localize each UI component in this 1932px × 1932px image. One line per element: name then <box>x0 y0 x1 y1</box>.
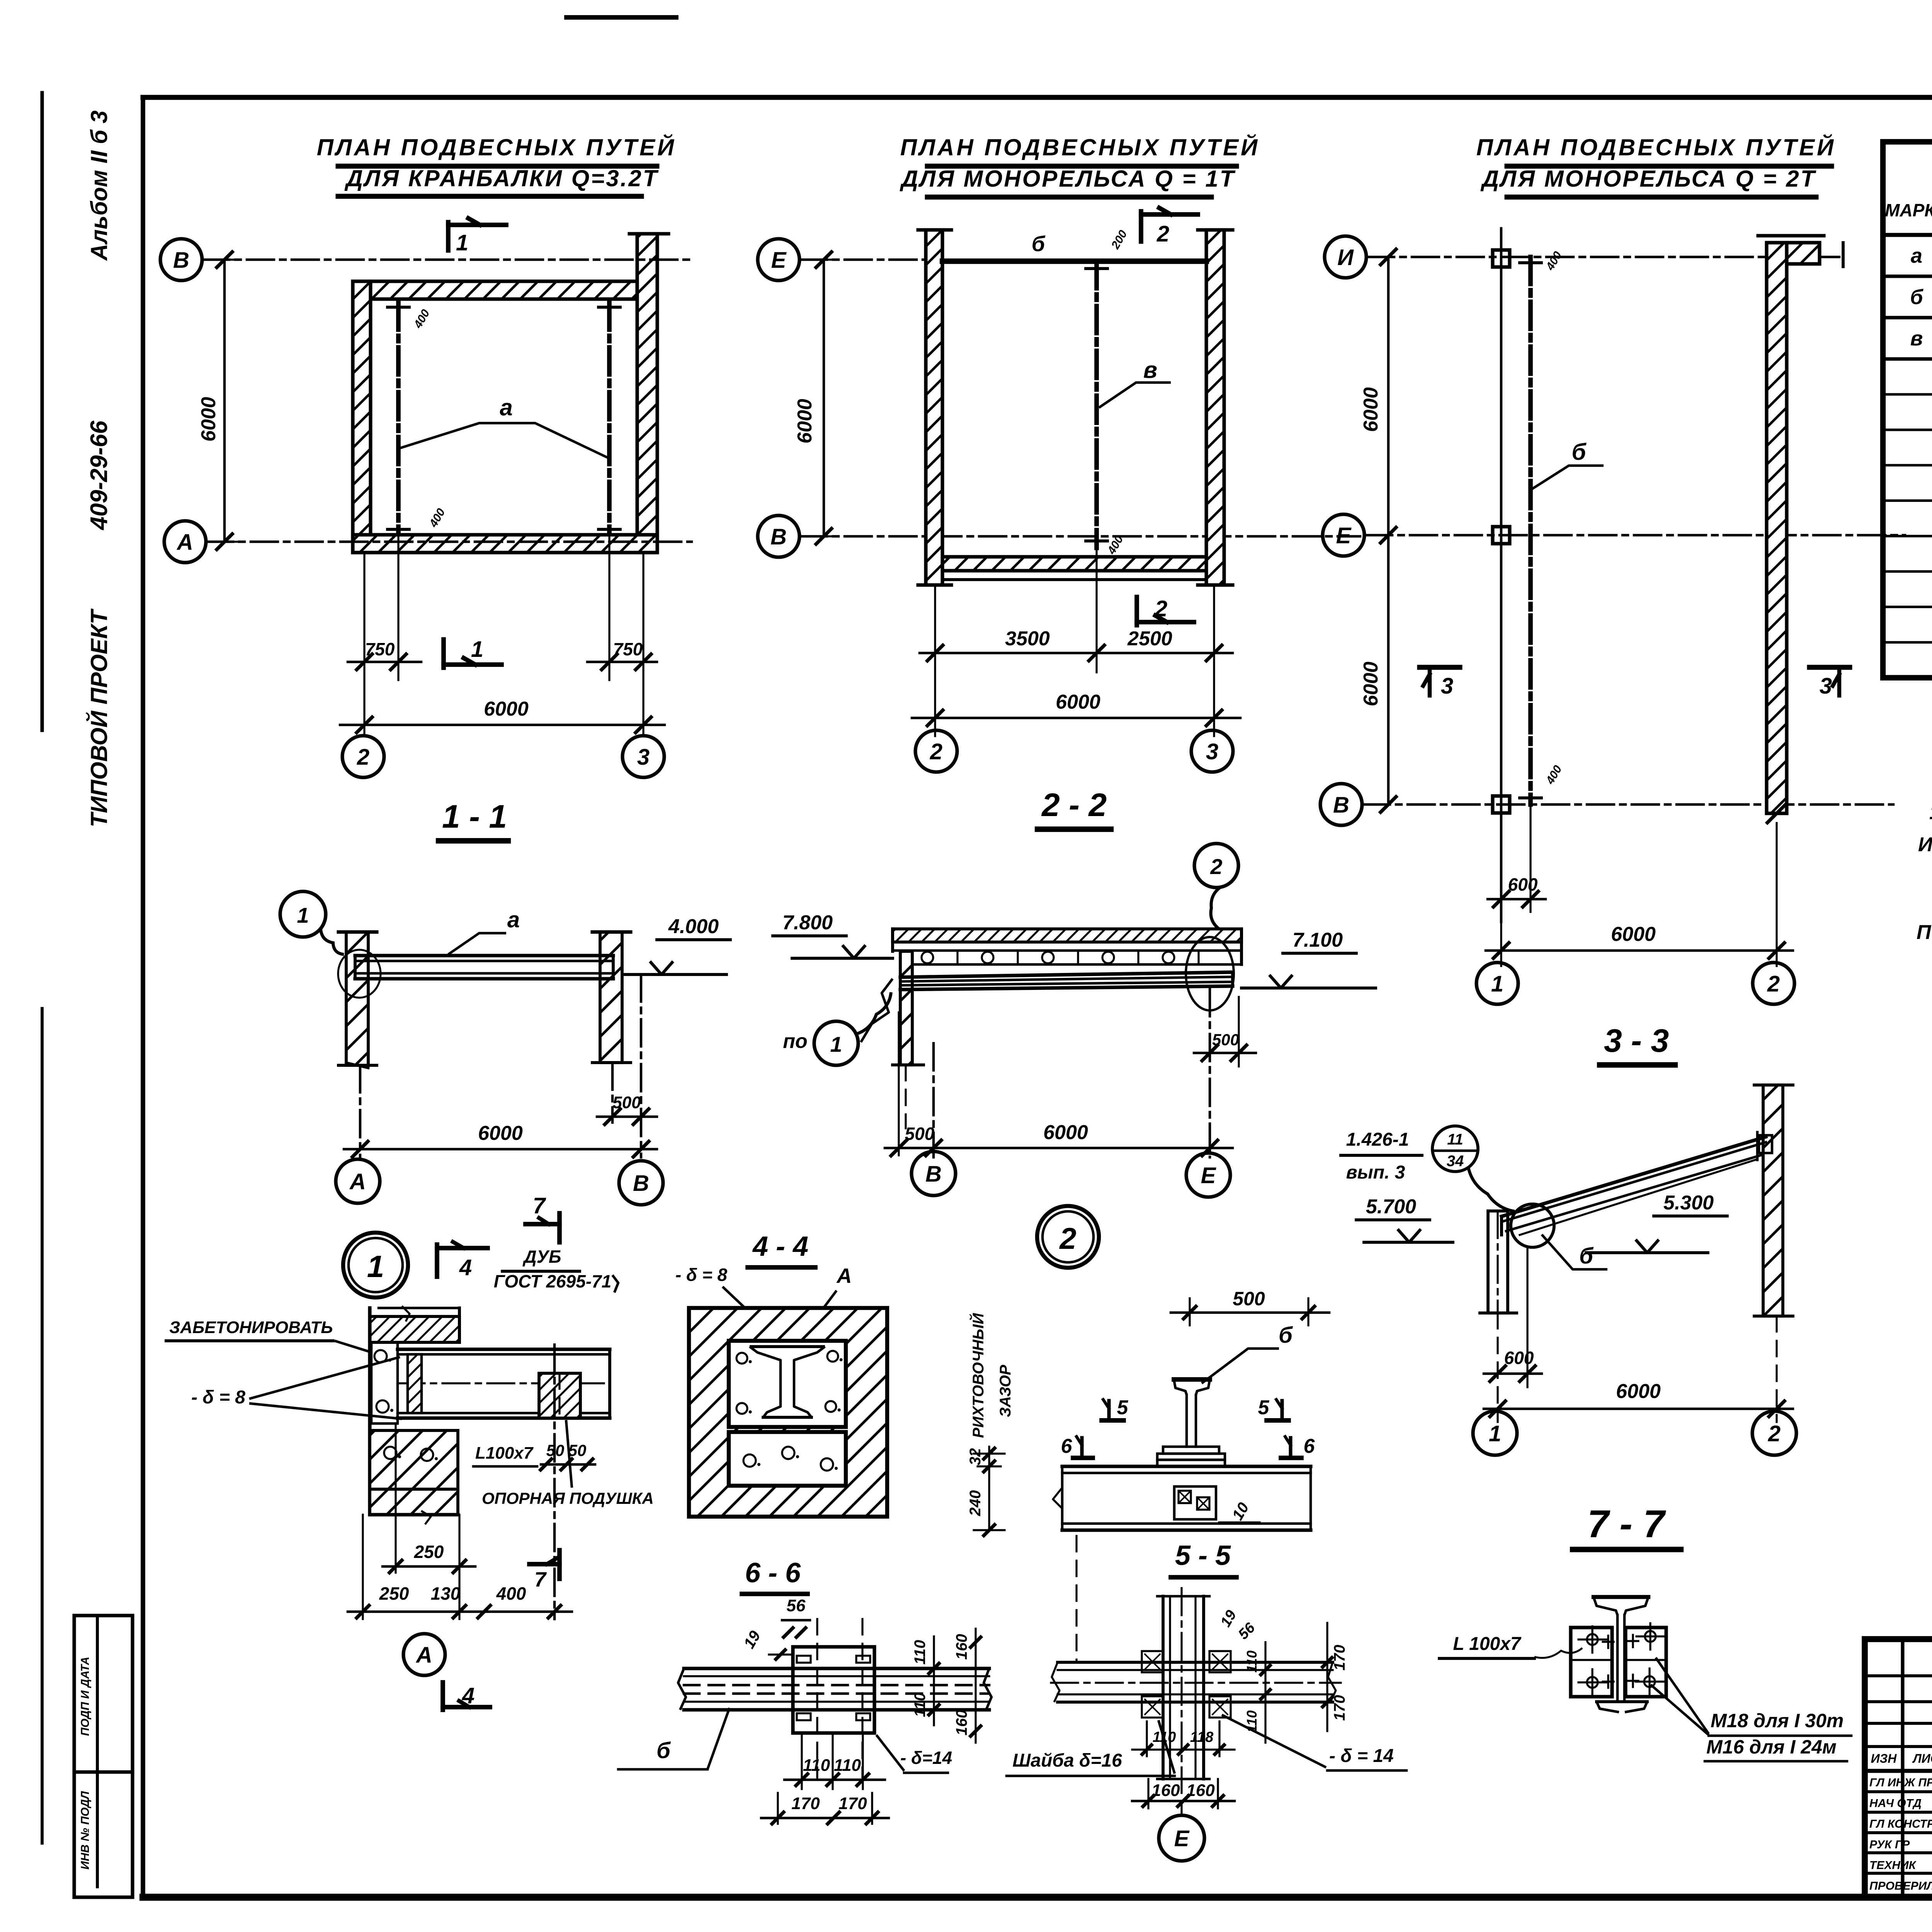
svg-text:1: 1 <box>830 1032 842 1056</box>
svg-text:И УСЛОВНЫЕ ОБОЗНАЧЕНИЯ: И УСЛОВНЫЕ ОБОЗНАЧЕНИЯ СМ. ЛИСТ КМ-1. <box>1918 833 1932 856</box>
svg-text:М16 для I 24м: М16 для I 24м <box>1706 1736 1837 1758</box>
svg-text:750: 750 <box>365 639 395 659</box>
svg-text:600: 600 <box>1504 1348 1534 1368</box>
svg-text:6000: 6000 <box>1616 1380 1661 1403</box>
svg-text:4.000: 4.000 <box>668 915 719 938</box>
svg-text:А: А <box>415 1643 432 1668</box>
svg-text:6000: 6000 <box>794 399 816 444</box>
svg-text:а: а <box>507 907 520 932</box>
svg-text:3: 3 <box>1441 673 1453 699</box>
svg-text:3500: 3500 <box>1005 628 1050 650</box>
svg-text:а: а <box>1911 244 1922 267</box>
svg-text:а: а <box>500 395 512 420</box>
svg-text:ГЛ ИНЖ ПР: ГЛ ИНЖ ПР <box>1869 1776 1932 1789</box>
svg-text:500: 500 <box>1233 1288 1265 1310</box>
svg-text:6000: 6000 <box>478 1122 523 1145</box>
svg-text:б: б <box>1910 286 1923 309</box>
svg-text:1: 1 <box>297 903 309 927</box>
svg-text:в: в <box>1143 357 1157 383</box>
svg-text:В: В <box>770 524 787 549</box>
svg-text:6000: 6000 <box>484 698 529 720</box>
svg-text:3 - 3: 3 - 3 <box>1604 1022 1669 1059</box>
svg-text:по: по <box>783 1030 808 1053</box>
svg-text:11: 11 <box>1447 1131 1463 1148</box>
svg-text:ДУБ: ДУБ <box>522 1247 561 1267</box>
svg-text:6000: 6000 <box>1360 662 1382 706</box>
svg-text:170: 170 <box>1331 1695 1348 1721</box>
svg-text:409-29-66: 409-29-66 <box>86 420 112 531</box>
svg-text:110: 110 <box>803 1756 830 1775</box>
svg-text:б: б <box>1579 1243 1594 1269</box>
svg-text:3: 3 <box>1820 673 1832 699</box>
svg-text:б: б <box>1032 231 1046 256</box>
svg-text:250: 250 <box>379 1583 409 1604</box>
svg-text:2: 2 <box>1768 1421 1781 1446</box>
svg-text:1: 1 <box>456 230 468 255</box>
svg-text:РУК ГР: РУК ГР <box>1869 1838 1910 1851</box>
svg-text:160: 160 <box>1186 1781 1215 1800</box>
svg-text:6000: 6000 <box>1043 1121 1088 1144</box>
svg-text:600: 600 <box>1508 874 1538 895</box>
svg-text:Шайба δ=16: Шайба δ=16 <box>1012 1750 1122 1771</box>
svg-text:Е: Е <box>1201 1163 1217 1188</box>
svg-text:НАЧ ОТД: НАЧ ОТД <box>1869 1797 1922 1810</box>
svg-text:2: 2 <box>930 739 942 764</box>
svg-text:4: 4 <box>459 1255 472 1280</box>
svg-text:1 - 1: 1 - 1 <box>442 798 507 835</box>
svg-text:5.300: 5.300 <box>1663 1192 1714 1214</box>
svg-text:В: В <box>925 1162 942 1187</box>
svg-text:110: 110 <box>1153 1729 1176 1745</box>
svg-text:М18 для I 30m: М18 для I 30m <box>1711 1710 1844 1731</box>
svg-text:- δ = 8: - δ = 8 <box>675 1265 728 1285</box>
svg-text:ИЗН: ИЗН <box>1871 1752 1897 1765</box>
svg-text:1: 1 <box>367 1249 384 1284</box>
svg-text:7: 7 <box>533 1193 546 1218</box>
svg-text:2 - 2: 2 - 2 <box>1041 787 1107 823</box>
svg-text:ТЕХНИК: ТЕХНИК <box>1869 1859 1917 1872</box>
svg-text:5.700: 5.700 <box>1366 1196 1416 1218</box>
svg-text:6000: 6000 <box>197 397 220 442</box>
svg-text:б: б <box>656 1738 671 1763</box>
svg-text:500: 500 <box>905 1124 935 1144</box>
svg-text:ГОСТ 2695-71: ГОСТ 2695-71 <box>494 1271 612 1291</box>
svg-text:2500: 2500 <box>1127 628 1172 650</box>
svg-text:400: 400 <box>496 1583 526 1604</box>
svg-text:Е: Е <box>1174 1826 1190 1851</box>
svg-text:ТИПОВОЙ ПРОЕКТ: ТИПОВОЙ ПРОЕКТ <box>86 609 112 827</box>
svg-text:А: А <box>836 1264 852 1287</box>
svg-text:ПОДП И ДАТА: ПОДП И ДАТА <box>79 1656 92 1736</box>
svg-text:750: 750 <box>613 639 643 659</box>
svg-text:А: А <box>349 1169 366 1194</box>
svg-text:110: 110 <box>1244 1650 1260 1672</box>
svg-text:ДЛЯ МОНОРЕЛЬСА Q = 1Т: ДЛЯ МОНОРЕЛЬСА Q = 1Т <box>900 166 1236 192</box>
svg-text:L 100x7: L 100x7 <box>1453 1634 1522 1654</box>
svg-text:250: 250 <box>414 1542 444 1562</box>
svg-text:ДЛЯ КРАНБАЛКИ Q=3.2Т: ДЛЯ КРАНБАЛКИ Q=3.2Т <box>344 165 659 191</box>
svg-text:4 - 4: 4 - 4 <box>752 1231 808 1262</box>
svg-text:6000: 6000 <box>1611 923 1656 946</box>
svg-text:И: И <box>1337 245 1354 270</box>
svg-text:Е: Е <box>1336 523 1352 548</box>
svg-text:110: 110 <box>912 1640 929 1665</box>
svg-text:160: 160 <box>953 1710 970 1736</box>
svg-text:110: 110 <box>912 1692 929 1717</box>
svg-text:2: 2 <box>1210 854 1222 879</box>
svg-text:6000: 6000 <box>1360 387 1382 432</box>
svg-text:ГЛ КОНСТР: ГЛ КОНСТР <box>1869 1818 1932 1830</box>
svg-text:170: 170 <box>838 1794 867 1813</box>
svg-text:б: б <box>1279 1323 1293 1348</box>
svg-text:6: 6 <box>1061 1435 1073 1458</box>
svg-text:7.100: 7.100 <box>1293 929 1343 951</box>
svg-text:В: В <box>1333 793 1349 818</box>
svg-text:130: 130 <box>431 1583 461 1604</box>
svg-text:3: 3 <box>637 745 650 770</box>
svg-text:МАРКА: МАРКА <box>1885 200 1932 220</box>
svg-text:ИНВ № ПОДЛ: ИНВ № ПОДЛ <box>79 1791 92 1869</box>
svg-text:1: 1 <box>471 637 483 662</box>
svg-text:1: 1 <box>1491 971 1503 997</box>
svg-text:6: 6 <box>1304 1435 1315 1458</box>
svg-text:2: 2 <box>1156 221 1169 247</box>
svg-text:Альбом II б 3: Альбом II б 3 <box>86 111 112 261</box>
svg-text:РИХТОВОЧНЫЙ: РИХТОВОЧНЫЙ <box>969 1313 987 1438</box>
svg-text:L100x7: L100x7 <box>475 1444 534 1463</box>
svg-text:7.800: 7.800 <box>782 912 833 934</box>
svg-text:34: 34 <box>1447 1153 1464 1170</box>
svg-text:ЗАЗОР: ЗАЗОР <box>997 1365 1014 1417</box>
svg-text:3: 3 <box>1206 739 1218 764</box>
svg-text:7: 7 <box>534 1568 547 1591</box>
svg-text:170: 170 <box>791 1794 820 1813</box>
svg-text:5: 5 <box>1258 1396 1270 1419</box>
svg-text:160: 160 <box>1151 1781 1180 1800</box>
svg-text:ПЛАН ПОДВЕСНЫХ ПУТЕЙ: ПЛАН ПОДВЕСНЫХ ПУТЕЙ <box>1476 134 1836 160</box>
svg-text:- δ=14: - δ=14 <box>900 1748 952 1768</box>
svg-text:ОПОРНАЯ ПОДУШКА: ОПОРНАЯ ПОДУШКА <box>482 1489 654 1507</box>
svg-text:2: 2 <box>357 745 369 770</box>
svg-text:6000: 6000 <box>1056 691 1100 713</box>
svg-text:1.426-1: 1.426-1 <box>1346 1129 1409 1150</box>
svg-text:110: 110 <box>834 1756 861 1775</box>
svg-text:2: 2 <box>1767 971 1780 997</box>
svg-text:В: В <box>173 248 189 273</box>
svg-text:240: 240 <box>967 1490 984 1517</box>
svg-text:118: 118 <box>1190 1729 1214 1745</box>
svg-text:2: 2 <box>1155 596 1167 621</box>
svg-text:6 - 6: 6 - 6 <box>745 1558 801 1588</box>
svg-text:Е: Е <box>771 248 787 273</box>
svg-text:в: в <box>1910 327 1923 350</box>
svg-text:ЛИСТ: ЛИСТ <box>1912 1752 1932 1765</box>
svg-text:ПУТЕЙ СМ. ПОЯСНИТЕЛЬНУЮ: ПУТЕЙ СМ. ПОЯСНИТЕЛЬНУЮ ЗАПИСКУ СЕРИИ 1.… <box>1917 920 1932 944</box>
svg-text:56: 56 <box>787 1596 806 1615</box>
svg-text:50: 50 <box>568 1441 587 1459</box>
svg-text:500: 500 <box>612 1093 641 1112</box>
svg-text:500: 500 <box>1212 1031 1239 1049</box>
svg-text:ПРОВЕРИЛ: ПРОВЕРИЛ <box>1869 1880 1932 1893</box>
svg-text:ПЛАН ПОДВЕСНЫХ ПУТЕЙ: ПЛАН ПОДВЕСНЫХ ПУТЕЙ <box>900 134 1260 160</box>
svg-text:5 - 5: 5 - 5 <box>1175 1540 1231 1571</box>
svg-text:1: 1 <box>1489 1421 1501 1446</box>
svg-text:В: В <box>633 1171 649 1196</box>
svg-text:вып. 3: вып. 3 <box>1346 1162 1405 1183</box>
svg-text:А: А <box>176 530 193 555</box>
svg-text:4: 4 <box>462 1683 474 1708</box>
svg-text:ЗАБЕТОНИРОВАТЬ: ЗАБЕТОНИРОВАТЬ <box>169 1318 333 1337</box>
svg-text:1. ОБЩИЕ УКАЗАНИЯ,: 1. ОБЩИЕ УКАЗАНИЯ, УСЛОВИЯ ПОСТАВКИ СТАЛ… <box>1929 801 1932 824</box>
svg-text:2: 2 <box>1059 1221 1076 1255</box>
svg-text:160: 160 <box>953 1634 970 1660</box>
svg-text:ДЛЯ МОНОРЕЛЬСА Q = 2Т: ДЛЯ МОНОРЕЛЬСА Q = 2Т <box>1480 166 1816 192</box>
svg-text:б: б <box>1571 439 1587 465</box>
svg-text:170: 170 <box>1331 1645 1348 1671</box>
svg-text:32: 32 <box>967 1448 984 1466</box>
svg-text:5: 5 <box>1117 1396 1129 1419</box>
svg-text:ПЛАН ПОДВЕСНЫХ ПУТЕЙ: ПЛАН ПОДВЕСНЫХ ПУТЕЙ <box>317 134 676 160</box>
svg-text:- δ = 14: - δ = 14 <box>1329 1746 1394 1766</box>
svg-text:7 - 7: 7 - 7 <box>1587 1502 1666 1546</box>
svg-text:- δ = 8: - δ = 8 <box>191 1387 245 1408</box>
